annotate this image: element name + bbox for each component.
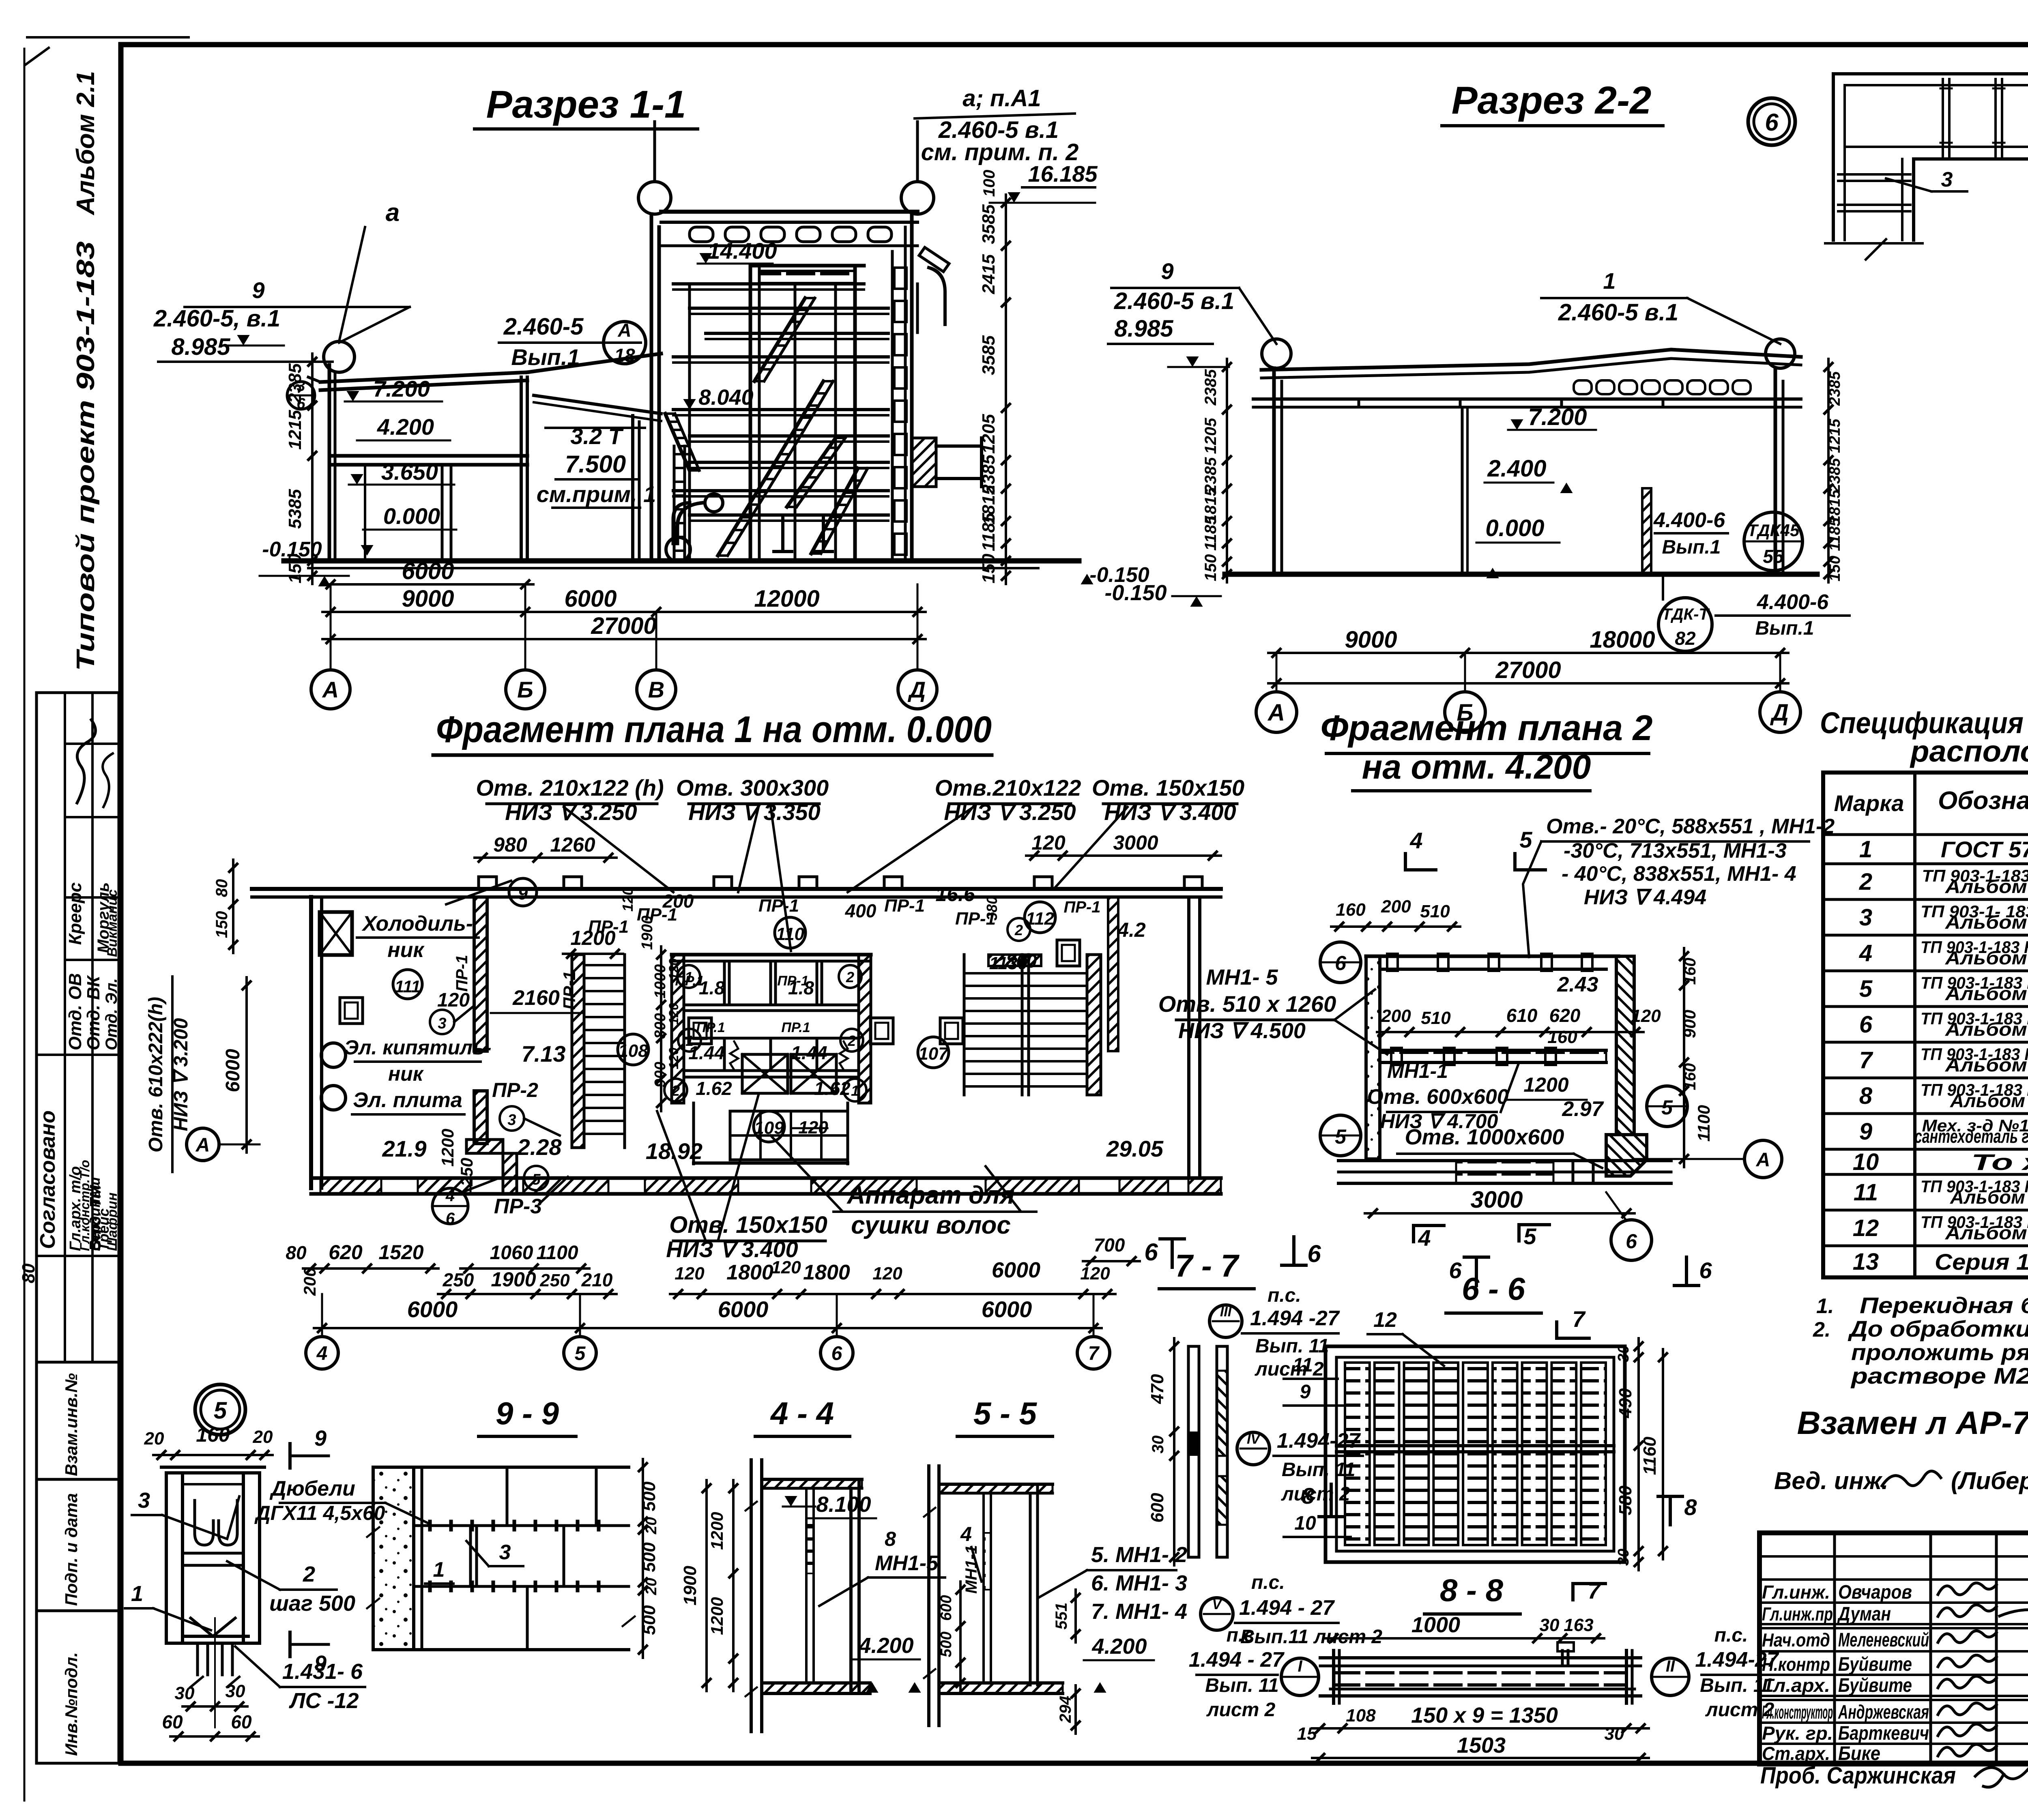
svg-text:Альбом 2.5: Альбом 2.5 xyxy=(1945,947,2028,968)
section 2-2 dim row 9000 18000 xyxy=(1268,652,1788,654)
svg-text:Перекидная балка только дл: Перекидная балка только для IV р-на. xyxy=(1860,1292,2028,1318)
svg-text:2: 2 xyxy=(671,1082,680,1099)
svg-text:1200: 1200 xyxy=(707,1597,726,1635)
svg-text:9000: 9000 xyxy=(402,586,454,612)
svg-text:500: 500 xyxy=(639,1542,659,1572)
svg-text:3000: 3000 xyxy=(1113,831,1158,854)
duct to the right of column D xyxy=(919,247,949,272)
svg-text:Согласовано: Согласовано xyxy=(36,1110,60,1249)
svg-text:-0.150: -0.150 xyxy=(1104,581,1167,605)
svg-text:6000: 6000 xyxy=(982,1296,1032,1322)
svg-text:160: 160 xyxy=(1336,900,1366,920)
svg-text:ПР-1: ПР-1 xyxy=(560,971,579,1010)
svg-text:470: 470 xyxy=(1147,1374,1167,1404)
plan 1 shower block outer walls xyxy=(672,955,684,1103)
svg-text:1520: 1520 xyxy=(378,1241,423,1264)
svg-text:160: 160 xyxy=(1547,1027,1577,1047)
svg-text:20: 20 xyxy=(643,1578,660,1595)
detail 4-4 inner panel lines xyxy=(805,1488,808,1683)
svg-text:1260: 1260 xyxy=(550,833,595,856)
svg-text:5: 5 xyxy=(575,1343,586,1364)
plan 1 outer left wall xyxy=(309,897,313,1188)
svg-text:109: 109 xyxy=(754,1118,784,1138)
svg-text:1.494 - 27: 1.494 - 27 xyxy=(1239,1596,1335,1620)
svg-text:2385: 2385 xyxy=(1826,458,1843,493)
svg-text:120: 120 xyxy=(1080,1264,1110,1283)
svg-text:30: 30 xyxy=(226,1681,245,1701)
detail 7-7 label V ps 1.494-27 xyxy=(1201,1598,1233,1630)
svg-text:2385: 2385 xyxy=(1826,371,1843,406)
svg-text:II: II xyxy=(1666,1657,1675,1675)
svg-text:Дюбели: Дюбели xyxy=(269,1477,355,1500)
svg-text:1900: 1900 xyxy=(491,1268,536,1291)
plan 1 stair 1 block xyxy=(572,955,584,1148)
svg-text:ПР-3: ПР-3 xyxy=(494,1195,542,1218)
svg-text:250: 250 xyxy=(443,1269,474,1290)
svg-text:4.400-6: 4.400-6 xyxy=(1757,590,1829,614)
svg-text:Гл.инж.: Гл.инж. xyxy=(1762,1582,1830,1603)
svg-text:1900: 1900 xyxy=(639,916,656,950)
svg-text:Меленевский: Меленевский xyxy=(1838,1629,1929,1651)
plan 1 bottom wall with hatches xyxy=(311,1176,1221,1180)
plan 2 dim 3000 xyxy=(1365,1212,1635,1215)
detail 5 bottom V weld xyxy=(191,1618,235,1636)
detail 7-7 label IV ps 1.494-27 xyxy=(1237,1432,1270,1465)
svg-text:1800: 1800 xyxy=(803,1261,850,1284)
plan 2 bottom circle 6 xyxy=(1611,1220,1652,1260)
svg-text:9 - 9: 9 - 9 xyxy=(496,1395,559,1431)
svg-text:150 х 9 = 1350: 150 х 9 = 1350 xyxy=(1411,1703,1558,1728)
svg-text:6000: 6000 xyxy=(564,586,617,612)
svg-text:12: 12 xyxy=(1373,1308,1397,1332)
svg-text:6: 6 xyxy=(1699,1258,1712,1283)
svg-text:551: 551 xyxy=(1053,1603,1070,1630)
svg-text:120: 120 xyxy=(666,1047,681,1069)
svg-text:лист 2: лист 2 xyxy=(1206,1699,1276,1721)
svg-text:Гл.арх.: Гл.арх. xyxy=(1762,1675,1830,1696)
svg-text:Гл.конструктор: Гл.конструктор xyxy=(1762,1702,1833,1723)
svg-text:1215: 1215 xyxy=(285,410,305,450)
top trim line left xyxy=(27,36,189,39)
hatched duct right mid xyxy=(912,438,936,487)
svg-text:Отв. 1000х600: Отв. 1000х600 xyxy=(1405,1125,1564,1149)
svg-text:610: 610 xyxy=(1506,1005,1538,1026)
shower lower block lockers xyxy=(692,1103,695,1164)
detail 5-5 rotated dims 600 500 551 294 xyxy=(959,1582,962,1691)
detail 4-4 elevation 8.100 xyxy=(784,1496,797,1507)
svg-text:Отв. 510 х 1260: Отв. 510 х 1260 xyxy=(1158,991,1336,1017)
svg-text:Отд. Эл.: Отд. Эл. xyxy=(103,978,120,1050)
detail 6 L-shaped reinforcement outer xyxy=(1833,74,2028,240)
stamp scribble signatures top xyxy=(77,720,95,803)
svg-text:п.с.: п.с. xyxy=(1714,1625,1748,1646)
svg-text:Отв. 150х150: Отв. 150х150 xyxy=(669,1212,827,1238)
svg-text:5: 5 xyxy=(1859,976,1873,1002)
section 2-2 dim row 27000 xyxy=(1268,682,1788,685)
svg-text:сантехдеталь г. Горький: сантехдеталь г. Горький xyxy=(1914,1126,2028,1147)
left stamp table xyxy=(37,693,119,1763)
circle 3 lower xyxy=(500,1106,524,1131)
svg-text:Вып. 11: Вып. 11 xyxy=(1205,1675,1278,1696)
svg-text:2.460-5, в.1: 2.460-5, в.1 xyxy=(153,305,280,332)
svg-text:сушки волос: сушки волос xyxy=(851,1211,1011,1239)
svg-text:900: 900 xyxy=(1680,1010,1699,1038)
svg-text:5: 5 xyxy=(1519,827,1532,852)
detail 5 channel body xyxy=(161,1466,264,1469)
detail 9-9 right dim chain 500 20 500 20 500 xyxy=(642,1459,644,1658)
section 2-2 columns xyxy=(1272,368,1276,574)
svg-text:12: 12 xyxy=(1853,1215,1879,1241)
section 1-1 dim row 27000 xyxy=(322,638,926,640)
svg-text:Альбом 2.5: Альбом 2.5 xyxy=(1945,1019,2028,1040)
svg-text:Вед. инж.: Вед. инж. xyxy=(1774,1467,1888,1494)
svg-text:4.200: 4.200 xyxy=(377,414,434,440)
svg-text:2.97: 2.97 xyxy=(1562,1097,1604,1121)
svg-text:1: 1 xyxy=(433,1558,445,1582)
svg-text:НИЗ ∇ 4.500: НИЗ ∇ 4.500 xyxy=(1178,1019,1306,1043)
svg-text:Отв.- 20°С, 588х551 , МН1-2: Отв.- 20°С, 588х551 , МН1-2 xyxy=(1546,815,1835,838)
detail 7-7 label III ps 1.494-27 xyxy=(1209,1305,1242,1337)
svg-text:30: 30 xyxy=(1149,1436,1167,1454)
svg-text:ТДК-Т: ТДК-Т xyxy=(1662,605,1710,623)
svg-text:1205: 1205 xyxy=(1202,418,1220,454)
svg-text:3585: 3585 xyxy=(979,335,999,375)
svg-text:6: 6 xyxy=(1626,1230,1637,1253)
plan 1 bottom axis circles 4 5 6 7 xyxy=(321,1294,323,1337)
svg-text:1: 1 xyxy=(131,1582,143,1606)
detail 5-5 bottom slab xyxy=(939,1681,1063,1685)
svg-text:490: 490 xyxy=(1616,1388,1635,1419)
detail 5 inner anchors hooks xyxy=(195,1500,213,1545)
svg-text:Взам.инв.№: Взам.инв.№ xyxy=(62,1373,81,1476)
svg-text:10: 10 xyxy=(1294,1513,1316,1534)
svg-text:6: 6 xyxy=(831,1343,842,1364)
svg-text:2.460-5: 2.460-5 xyxy=(503,313,584,340)
svg-text:3: 3 xyxy=(1859,904,1872,931)
svg-text:Отд. ВК: Отд. ВК xyxy=(84,975,103,1050)
detail 6-6 right dims 30 490 580 1160 30 xyxy=(1637,1338,1640,1570)
svg-text:30: 30 xyxy=(1615,1345,1632,1362)
svg-text:7.13: 7.13 xyxy=(522,1041,566,1067)
corner mark top-left xyxy=(25,48,49,65)
svg-text:Отв. 300х300: Отв. 300х300 xyxy=(676,775,829,801)
svg-text:380: 380 xyxy=(984,896,1000,921)
boiler ladder left xyxy=(673,446,676,560)
detail 8-8 circle I with label xyxy=(1281,1658,1319,1696)
svg-text:10: 10 xyxy=(1853,1149,1879,1175)
svg-text:А: А xyxy=(617,320,631,341)
elevation 14.400 xyxy=(699,253,712,264)
svg-text:6: 6 xyxy=(1859,1011,1873,1038)
detail 5-5 inner verticals xyxy=(982,1493,985,1683)
plan 2 mid wall band xyxy=(1380,1049,1606,1052)
svg-text:2.43: 2.43 xyxy=(1557,973,1598,996)
detail 5 section mark 9 lower xyxy=(288,1632,292,1657)
svg-text:Альбом 2.5: Альбом 2.5 xyxy=(1950,1187,2028,1208)
svg-text:120: 120 xyxy=(666,1003,681,1025)
svg-text:120: 120 xyxy=(872,1264,902,1283)
svg-text:250: 250 xyxy=(539,1271,570,1290)
svg-text:18000: 18000 xyxy=(1590,627,1655,653)
detail 6 circle label xyxy=(1748,98,1795,145)
svg-text:Д: Д xyxy=(1770,700,1789,726)
svg-text:2.: 2. xyxy=(1813,1318,1830,1341)
detail 6 inner frame lines xyxy=(1845,85,2028,240)
section 1-1 left dimension chain xyxy=(311,354,314,584)
svg-text:Фрагмент плана 1 на отм. 0.000: Фрагмент плана 1 на отм. 0.000 xyxy=(436,709,992,750)
detail 4-4 elevation 4.200 xyxy=(866,1682,878,1693)
svg-text:Альбом 2.5: Альбом 2.5 xyxy=(1945,876,2028,897)
svg-text:6000: 6000 xyxy=(402,558,454,584)
title block outer xyxy=(1759,1533,2028,1764)
svg-text:Разрез 2-2: Разрез 2-2 xyxy=(1452,79,1652,122)
svg-text:1: 1 xyxy=(685,969,693,985)
section 1-1 left bay mezzanine slab 4.200 xyxy=(329,454,527,458)
detail 7-7 left dims 470 30 600 xyxy=(1173,1338,1175,1565)
detail 8-8 end plates and stiffener xyxy=(1332,1650,1335,1703)
svg-text:Эл. кипятиль-: Эл. кипятиль- xyxy=(344,1036,491,1059)
svg-text:400: 400 xyxy=(845,900,877,921)
boiler structure platforms and posts xyxy=(688,284,691,561)
section 2-2 below-floor TDK-T/82 labels xyxy=(1658,598,1712,651)
right stair 2 block xyxy=(963,955,966,1095)
svg-text:Гл.инж.пр: Гл.инж.пр xyxy=(1762,1603,1833,1625)
svg-text:80: 80 xyxy=(213,879,231,897)
svg-text:Обозначение: Обозначение xyxy=(1938,787,2028,815)
svg-text:1.: 1. xyxy=(1816,1294,1834,1318)
svg-text:294: 294 xyxy=(1057,1696,1074,1723)
svg-text:7 - 7: 7 - 7 xyxy=(1175,1248,1240,1283)
svg-text:Б: Б xyxy=(517,677,533,702)
svg-text:80: 80 xyxy=(19,1263,39,1283)
svg-text:13: 13 xyxy=(1853,1249,1879,1275)
svg-text:-30°С, 713х551, МН1-3: -30°С, 713х551, МН1-3 xyxy=(1564,839,1787,863)
svg-text:Отв.210х122: Отв.210х122 xyxy=(935,775,1081,801)
section 2-2 right vertical dim chain xyxy=(1827,359,1830,582)
svg-text:2385: 2385 xyxy=(1202,369,1220,406)
svg-text:620: 620 xyxy=(1549,1005,1581,1026)
detail circle 3/6 left xyxy=(287,382,315,409)
svg-text:1900: 1900 xyxy=(680,1566,700,1605)
svg-text:Взамен л АР-7: Взамен л АР-7 xyxy=(1797,1405,2028,1441)
svg-text:500: 500 xyxy=(639,1481,659,1511)
plan 1 top wall (long double line) xyxy=(252,887,1221,891)
detail 7-7 slats xyxy=(1188,1346,1199,1557)
svg-text:А: А xyxy=(322,677,339,702)
svg-text:Отд. ОВ: Отд. ОВ xyxy=(65,973,85,1050)
detail 8-8 bottom dims xyxy=(1312,1727,1649,1730)
section 2-2 parapet circles xyxy=(1262,339,1291,368)
boiler body outline xyxy=(749,266,752,560)
svg-text:1100: 1100 xyxy=(1694,1105,1713,1142)
detail 6-6 grille outer frame xyxy=(1326,1346,1625,1562)
plan 2 right rotated dims 160 900 160 1100 xyxy=(1683,948,1685,1167)
svg-text:8.985: 8.985 xyxy=(171,334,230,360)
svg-text:Альбом 2.1: Альбом 2.1 xyxy=(72,71,100,216)
svg-text:До обработки парапета по п: До обработки парапета по панелям в осях … xyxy=(1848,1316,2028,1341)
svg-text:7: 7 xyxy=(1088,1343,1100,1364)
svg-text:9: 9 xyxy=(518,884,528,904)
detail 9-9 break marks xyxy=(367,1527,379,1608)
svg-text:1.62: 1.62 xyxy=(696,1078,732,1099)
svg-text:ПР.1: ПР.1 xyxy=(781,1020,810,1035)
svg-text:8: 8 xyxy=(885,1528,896,1550)
plan 2 right wall hatched xyxy=(1616,956,1634,1135)
svg-text:1000: 1000 xyxy=(1411,1613,1460,1637)
svg-text:2: 2 xyxy=(847,1032,856,1049)
right stair side wall hatched xyxy=(1087,955,1101,1095)
svg-text:2.460-5 в.1: 2.460-5 в.1 xyxy=(1114,288,1234,314)
svg-text:(Либерт) 30.3.83: (Либерт) 30.3.83 xyxy=(1951,1467,2028,1494)
room circles 108 110 107 109 112 xyxy=(618,1034,649,1065)
svg-text:200: 200 xyxy=(1381,897,1411,916)
svg-text:18: 18 xyxy=(614,345,635,366)
detail 9-9 dowels rows xyxy=(428,1522,432,1530)
svg-text:108: 108 xyxy=(618,1041,648,1061)
plan 1 axis 9 circle top xyxy=(509,878,537,906)
plan 1 far right walls xyxy=(1108,897,1118,1051)
svg-text:1185: 1185 xyxy=(979,513,999,551)
detail 9-9 vertical joints xyxy=(506,1467,509,1526)
svg-text:1503: 1503 xyxy=(1457,1733,1506,1758)
svg-text:Ст.арх.: Ст.арх. xyxy=(1762,1743,1830,1764)
svg-text:1200: 1200 xyxy=(707,1512,726,1550)
svg-text:Эл. плита: Эл. плита xyxy=(353,1088,462,1112)
svg-text:0.000: 0.000 xyxy=(1485,515,1544,541)
svg-text:Вып.1: Вып.1 xyxy=(1755,618,1814,639)
svg-text:Отв. 150х150: Отв. 150х150 xyxy=(1092,775,1244,801)
svg-text:120: 120 xyxy=(1031,831,1066,854)
svg-text:1060: 1060 xyxy=(490,1242,533,1264)
svg-text:510: 510 xyxy=(1421,1008,1451,1028)
svg-text:Н.контр: Н.контр xyxy=(1762,1654,1830,1675)
svg-text:расположенным на листе АР-16: расположенным на листе АР-16 xyxy=(1910,734,2028,768)
detail 4-4 left rotated dims xyxy=(732,1480,735,1691)
detail 5 section mark 9 upper xyxy=(288,1444,292,1468)
svg-text:150: 150 xyxy=(1202,554,1220,582)
svg-text:120: 120 xyxy=(619,887,636,912)
svg-text:9: 9 xyxy=(1859,1118,1872,1145)
detail 4-4 right wall xyxy=(849,1488,853,1693)
svg-text:- 40°С, 838х551, МН1- 4: - 40°С, 838х551, МН1- 4 xyxy=(1562,862,1796,886)
svg-text:100: 100 xyxy=(980,170,998,197)
svg-text:4.200: 4.200 xyxy=(858,1633,913,1658)
svg-text:4.400-6: 4.400-6 xyxy=(1653,509,1725,532)
detail 5 centerline xyxy=(214,1618,216,1728)
detail 5 double circle xyxy=(195,1384,245,1435)
svg-text:ПР-1: ПР-1 xyxy=(777,973,808,989)
section 2-2 small wall stub xyxy=(1642,488,1651,574)
svg-text:лист 2: лист 2 xyxy=(1255,1359,1324,1380)
svg-text:Альбом 2.5: Альбом 2.5 xyxy=(1945,983,2028,1004)
svg-text:1200: 1200 xyxy=(438,1129,457,1166)
svg-text:2: 2 xyxy=(303,1562,315,1586)
svg-text:1: 1 xyxy=(1859,836,1872,863)
svg-text:А: А xyxy=(1756,1149,1770,1171)
svg-text:ПР-1: ПР-1 xyxy=(1063,898,1100,916)
svg-text:27000: 27000 xyxy=(591,613,656,639)
detail 9-9 concrete column strip xyxy=(373,1467,414,1650)
svg-text:500: 500 xyxy=(938,1631,955,1657)
shower cabins partitions xyxy=(723,961,726,1005)
svg-text:Серия 1.431- 6: Серия 1.431- 6 xyxy=(1935,1249,2028,1275)
svg-text:Рук. гр.: Рук. гр. xyxy=(1762,1723,1833,1744)
svg-text:7.200: 7.200 xyxy=(1528,404,1587,430)
svg-text:120: 120 xyxy=(675,1264,705,1283)
svg-text:1130: 1130 xyxy=(989,953,1028,973)
svg-text:8.040: 8.040 xyxy=(698,385,753,410)
plan 1 partition PR-1 left hatched xyxy=(474,897,487,1051)
svg-text:2.28: 2.28 xyxy=(517,1134,562,1160)
svg-text:ПР-1: ПР-1 xyxy=(758,896,799,916)
svg-text:200: 200 xyxy=(1381,1006,1411,1026)
detail 6 bottom break xyxy=(1825,242,1923,245)
svg-text:5. МН1- 2: 5. МН1- 2 xyxy=(1091,1543,1187,1567)
svg-text:16.6: 16.6 xyxy=(935,883,975,906)
svg-text:120: 120 xyxy=(666,958,681,980)
svg-text:8: 8 xyxy=(1684,1494,1697,1520)
svg-text:6: 6 xyxy=(1307,1240,1321,1267)
svg-text:НИЗ ∇ 4.494: НИЗ ∇ 4.494 xyxy=(1584,886,1706,909)
svg-text:107: 107 xyxy=(918,1044,949,1064)
plan 1 hole leader lines xyxy=(564,807,673,892)
svg-text:11: 11 xyxy=(1854,1179,1878,1206)
svg-text:2: 2 xyxy=(1014,922,1023,938)
svg-text:980: 980 xyxy=(493,833,527,856)
svg-text:7: 7 xyxy=(1859,1047,1873,1073)
svg-text:8: 8 xyxy=(1302,1483,1315,1509)
plan 1 top small dims 980 1260 xyxy=(475,856,617,859)
section 1-1 ground floor line xyxy=(284,558,1079,564)
svg-text:ПР-1: ПР-1 xyxy=(884,896,925,916)
svg-text:Фрагмент плана 2: Фрагмент плана 2 xyxy=(1321,708,1653,748)
svg-text:1.494 -27: 1.494 -27 xyxy=(1250,1307,1340,1330)
svg-text:Барткевич: Барткевич xyxy=(1838,1723,1929,1744)
svg-text:V: V xyxy=(1212,1597,1223,1612)
svg-text:5: 5 xyxy=(214,1397,227,1424)
svg-text:3000: 3000 xyxy=(1470,1187,1523,1213)
svg-text:а: а xyxy=(386,199,400,227)
section 2-2 roof xyxy=(1261,350,1801,370)
svg-text:1200: 1200 xyxy=(1523,1073,1568,1096)
svg-text:200: 200 xyxy=(662,891,694,912)
svg-text:20: 20 xyxy=(643,1517,660,1535)
svg-text:9: 9 xyxy=(1161,258,1173,284)
svg-text:Нач.отд: Нач.отд xyxy=(1762,1629,1830,1650)
svg-text:Альбом 2.5: Альбом 2.5 xyxy=(1945,1222,2028,1243)
svg-text:Вып.1: Вып.1 xyxy=(1662,537,1721,558)
section 2-2 left vertical dim chain xyxy=(1226,359,1228,582)
plan 1 small protrusion wall lower-left xyxy=(466,1140,503,1153)
boiler support legs xyxy=(781,515,784,552)
svg-text:160: 160 xyxy=(1681,1063,1699,1090)
detail 5-5 top slab xyxy=(939,1483,1053,1486)
svg-text:9: 9 xyxy=(314,1426,327,1451)
svg-text:1100: 1100 xyxy=(536,1242,578,1264)
svg-text:1215: 1215 xyxy=(1826,419,1843,453)
svg-text:2160: 2160 xyxy=(512,986,560,1010)
svg-text:Отв. 210х122 (h): Отв. 210х122 (h) xyxy=(476,775,664,801)
svg-text:60: 60 xyxy=(162,1711,183,1732)
section 1-1 elevations left bay xyxy=(346,391,359,401)
section 1-1 dim row 9000 6000 12000 xyxy=(322,611,926,613)
svg-text:55: 55 xyxy=(1763,546,1784,567)
svg-text:6: 6 xyxy=(1144,1238,1158,1266)
svg-text:Типовой проект 903-1-183: Типовой проект 903-1-183 xyxy=(72,241,100,671)
svg-text:1: 1 xyxy=(851,1082,859,1099)
svg-text:А: А xyxy=(1267,700,1285,726)
section 1-1 mid bay roof sloping xyxy=(527,354,661,372)
